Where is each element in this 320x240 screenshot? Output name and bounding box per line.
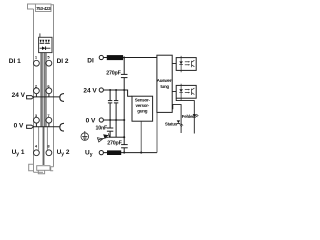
svg-text:0 V: 0 V [86, 117, 96, 124]
svg-text:270pF: 270pF [107, 141, 122, 147]
svg-text:24 V: 24 V [12, 92, 26, 99]
svg-text:Sensor-: Sensor- [135, 97, 151, 102]
svg-text:Auswer-: Auswer- [157, 78, 173, 83]
svg-text:versor-: versor- [136, 103, 150, 108]
svg-text:0 V: 0 V [14, 122, 24, 129]
svg-text:DI 1: DI 1 [9, 58, 21, 65]
svg-text:DI: DI [87, 58, 94, 65]
svg-text:DI 2: DI 2 [57, 58, 69, 65]
svg-text:270pF: 270pF [106, 70, 121, 76]
svg-text:tung: tung [160, 84, 169, 89]
svg-text:753-423: 753-423 [36, 6, 51, 11]
svg-text:Status: Status [165, 121, 178, 126]
svg-text:24 V: 24 V [83, 87, 97, 94]
svg-text:Fehler: Fehler [182, 114, 194, 119]
svg-text:gung: gung [137, 108, 147, 113]
svg-text:10nF: 10nF [96, 126, 109, 132]
